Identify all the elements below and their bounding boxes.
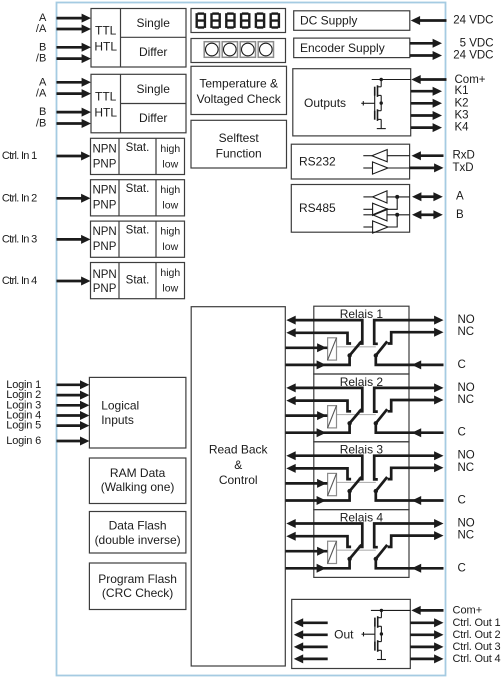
svg-text:NPN: NPN bbox=[92, 143, 116, 155]
label NO (relay 2) bbox=[458, 382, 475, 394]
svg-text:Encoder Supply: Encoder Supply bbox=[300, 41, 385, 55]
label C (relay 1) bbox=[458, 359, 466, 371]
wire relay 2 coil drive arrow from read back bbox=[286, 411, 328, 420]
svg-text:Ctrl. Out 2: Ctrl. Out 2 bbox=[453, 629, 501, 641]
wire relay 1 mechanical link (coil to contacts) bbox=[337, 346, 376, 348]
svg-text:Single: Single bbox=[137, 82, 171, 96]
block program flash test bbox=[89, 563, 185, 610]
label K4 bbox=[455, 122, 470, 134]
svg-text:(double inverse): (double inverse) bbox=[95, 533, 181, 547]
label K2 bbox=[455, 97, 469, 109]
label /A (encoder 2) bbox=[36, 88, 47, 100]
label A (encoder 2) bbox=[39, 76, 47, 88]
svg-text:5 VDC: 5 VDC bbox=[460, 37, 494, 49]
svg-text:Ctrl. Out 1: Ctrl. Out 1 bbox=[453, 617, 501, 629]
svg-text:Voltaged Check: Voltaged Check bbox=[197, 92, 282, 106]
svg-text:C: C bbox=[458, 427, 466, 439]
svg-text:high: high bbox=[160, 267, 180, 279]
wire Ctrl. Out 3 output arrow bbox=[410, 642, 443, 651]
svg-text:PNP: PNP bbox=[93, 283, 117, 295]
svg-text:DC Supply: DC Supply bbox=[300, 14, 357, 28]
svg-text:Stat.: Stat. bbox=[126, 275, 150, 287]
wire RxD input arrow bbox=[412, 151, 444, 160]
svg-text:RxD: RxD bbox=[453, 150, 475, 162]
svg-text:Selftest: Selftest bbox=[219, 131, 260, 145]
label Login 2 bbox=[6, 389, 41, 401]
wire RS485 B bidirectional arrow bbox=[412, 210, 443, 219]
svg-text:Ctrl. Out 4: Ctrl. Out 4 bbox=[453, 653, 501, 665]
label NC (relay 2) bbox=[458, 394, 475, 406]
wire relay 4 left contact NC to read back bbox=[286, 532, 351, 547]
svg-text:NO: NO bbox=[458, 382, 475, 394]
svg-text:Ctrl. In 2: Ctrl. In 2 bbox=[2, 192, 37, 204]
block control input 3 NPN/PNP Stat high/low bbox=[91, 221, 185, 257]
label /B (encoder 2) bbox=[36, 118, 46, 130]
svg-text:C: C bbox=[458, 562, 466, 574]
wire encoder supply 24 VDC output arrow bbox=[410, 51, 442, 60]
svg-text:Temperature &: Temperature & bbox=[199, 76, 278, 90]
svg-text:PNP: PNP bbox=[93, 241, 117, 253]
block selftest function bbox=[191, 120, 287, 168]
wire TxD output arrow bbox=[410, 163, 444, 172]
label B (encoder 2) bbox=[39, 106, 46, 118]
wire Ctrl. In 2 arrow bbox=[57, 194, 91, 203]
svg-text:Single: Single bbox=[137, 16, 171, 30]
svg-text:Program Flash: Program Flash bbox=[98, 572, 177, 586]
label K3 bbox=[455, 110, 469, 122]
wire relay 4 left contact NO to read back bbox=[286, 519, 362, 547]
wire relay 1 coil drive arrow from read back bbox=[286, 343, 328, 352]
wire out block internal drive arrow 2 bbox=[294, 630, 328, 639]
wire relay 4 common C input bbox=[376, 560, 444, 573]
switch relay 1 left pole blade bbox=[347, 341, 361, 357]
wire B input arrow to encoder 1 bbox=[57, 43, 92, 52]
svg-text:PNP: PNP bbox=[93, 158, 117, 170]
block data flash test bbox=[89, 512, 185, 554]
wire Com+ input arrow to out block bbox=[411, 606, 443, 615]
svg-text:C: C bbox=[458, 359, 466, 371]
label Ctrl. Out 2 bbox=[453, 629, 501, 641]
label Ctrl. In 4 bbox=[2, 275, 37, 287]
svg-text:Ctrl. In 3: Ctrl. In 3 bbox=[2, 233, 37, 245]
wire relay 4 NO contact output bbox=[374, 519, 443, 547]
svg-text:RS232: RS232 bbox=[299, 155, 336, 169]
label /A (encoder 1) bbox=[36, 23, 47, 35]
label 5 VDC bbox=[460, 37, 494, 49]
block RAM data test bbox=[89, 458, 185, 504]
wire relay 2 NC contact output bbox=[388, 396, 444, 412]
svg-text:K1: K1 bbox=[455, 85, 469, 97]
wire relay 3 NC contact output bbox=[388, 463, 444, 479]
label A (RS485) bbox=[456, 191, 464, 203]
label Login 3 bbox=[6, 399, 41, 411]
wire /A input arrow to encoder 2 bbox=[57, 89, 92, 98]
svg-text:Com+: Com+ bbox=[453, 605, 483, 617]
svg-text:(CRC Check): (CRC Check) bbox=[102, 586, 173, 600]
svg-text:NPN: NPN bbox=[92, 185, 116, 197]
svg-text:B: B bbox=[39, 106, 46, 118]
svg-text:Outputs: Outputs bbox=[304, 96, 346, 110]
svg-text:C: C bbox=[458, 495, 466, 507]
svg-text:Stat.: Stat. bbox=[126, 183, 150, 195]
svg-text:NO: NO bbox=[458, 518, 475, 530]
wire relay 1 left pole feed arrow from read back bbox=[286, 356, 350, 369]
wire out block internal drive arrow 4 bbox=[294, 654, 328, 663]
label NO (relay 3) bbox=[458, 450, 475, 462]
label C (relay 2) bbox=[458, 427, 466, 439]
block RS485 interface U4 bbox=[291, 185, 409, 234]
svg-text:&: & bbox=[234, 458, 242, 472]
label Ctrl. Out 1 bbox=[453, 617, 501, 629]
wire Ctrl. Out 2 output arrow bbox=[410, 630, 443, 639]
wire Login 2 arrow bbox=[57, 391, 90, 400]
label RxD bbox=[453, 150, 475, 162]
label Ctrl. In 3 bbox=[2, 233, 37, 245]
block U2 encoder input 2 TTL/HTL Single/Differ bbox=[91, 74, 186, 133]
svg-text:HTL: HTL bbox=[94, 40, 117, 54]
label NC (relay 4) bbox=[458, 530, 475, 542]
switch relay 2 left pole blade bbox=[347, 409, 361, 425]
wire Ctrl. In 1 arrow bbox=[57, 152, 91, 161]
svg-text:RS485: RS485 bbox=[299, 201, 336, 215]
coil relay 1 bbox=[328, 338, 337, 360]
wire Com+ input arrow to outputs bbox=[411, 75, 446, 84]
wire 24 VDC input arrow to DC supply bbox=[411, 16, 447, 25]
block control input 4 NPN/PNP Stat high/low bbox=[91, 263, 185, 299]
wire encoder supply 5 VDC output arrow bbox=[410, 39, 442, 48]
svg-text:/B: /B bbox=[36, 118, 46, 130]
wire relay 1 common C input bbox=[376, 356, 444, 369]
svg-text:NO: NO bbox=[458, 314, 475, 326]
svg-text:/A: /A bbox=[36, 23, 47, 35]
label Ctrl. Out 4 bbox=[453, 653, 501, 665]
block encoder supply bbox=[294, 38, 410, 58]
svg-text:B: B bbox=[39, 41, 46, 53]
block control input 2 NPN/PNP Stat high/low bbox=[91, 180, 185, 216]
switch relay 4 left pole blade bbox=[347, 545, 361, 561]
svg-text:high: high bbox=[160, 143, 180, 155]
wire out block internal drive arrow 3 bbox=[294, 642, 328, 651]
wire relay 1 NC contact output bbox=[388, 328, 444, 344]
svg-text:Out: Out bbox=[334, 627, 354, 641]
block temperature and voltage check bbox=[191, 66, 287, 114]
block RS232 interface U3 bbox=[291, 144, 409, 179]
label B (RS485) bbox=[456, 209, 464, 221]
wire Login 1 arrow bbox=[57, 380, 90, 389]
svg-text:Ctrl. In 4: Ctrl. In 4 bbox=[2, 275, 37, 287]
svg-text:NPN: NPN bbox=[92, 269, 116, 281]
svg-text:/A: /A bbox=[36, 88, 47, 100]
label /B (encoder 1) bbox=[36, 53, 46, 65]
switch relay 3 right pole blade bbox=[374, 477, 388, 493]
svg-text:Ctrl. In 1: Ctrl. In 1 bbox=[2, 150, 37, 162]
label K1 bbox=[455, 85, 469, 97]
wire relay 2 left contact NO to read back bbox=[286, 383, 362, 411]
wire Ctrl. In 4 arrow bbox=[57, 277, 91, 286]
svg-text:NC: NC bbox=[458, 394, 475, 406]
wire B input arrow to encoder 2 bbox=[57, 108, 92, 117]
wire relay 3 left contact NC to read back bbox=[286, 464, 351, 479]
label Login 6 bbox=[6, 435, 41, 447]
wire relay 4 coil drive arrow from read back bbox=[286, 547, 328, 556]
wire A input arrow to encoder 2 bbox=[57, 78, 92, 87]
block outputs driver Q1 with K1-K4 bbox=[293, 69, 411, 136]
wire out block internal drive arrow 1 bbox=[294, 618, 328, 627]
block logical inputs bbox=[89, 377, 185, 448]
svg-text:Login 5: Login 5 bbox=[6, 420, 41, 432]
svg-text:NPN: NPN bbox=[92, 226, 116, 238]
block read back and control bbox=[191, 307, 285, 666]
svg-text:NC: NC bbox=[458, 462, 475, 474]
svg-text:Function: Function bbox=[216, 147, 262, 161]
label Login 1 bbox=[6, 379, 41, 391]
wire Login 5 arrow bbox=[57, 421, 90, 430]
svg-text:NC: NC bbox=[458, 326, 475, 338]
svg-text:high: high bbox=[160, 226, 180, 238]
wire relay 3 mechanical link (coil to contacts) bbox=[337, 481, 376, 483]
wire Login 4 arrow bbox=[57, 411, 90, 420]
coil relay 3 bbox=[328, 473, 337, 495]
wire relay 1 left contact NC to read back bbox=[286, 328, 351, 343]
wire Login 3 arrow bbox=[57, 401, 90, 410]
svg-text:A: A bbox=[456, 191, 464, 203]
svg-text:K3: K3 bbox=[455, 110, 469, 122]
label NC (relay 3) bbox=[458, 462, 475, 474]
svg-text:A: A bbox=[39, 76, 47, 88]
svg-text:Differ: Differ bbox=[139, 45, 167, 59]
svg-text:Stat.: Stat. bbox=[126, 225, 150, 237]
wire relay 3 coil drive arrow from read back bbox=[286, 479, 328, 488]
wire /B input arrow to encoder 2 bbox=[57, 119, 92, 128]
block 7-segment display 888888 bbox=[191, 9, 286, 33]
svg-text:K4: K4 bbox=[455, 122, 470, 134]
wire Ctrl. Out 1 output arrow bbox=[410, 618, 443, 627]
wire relay 3 common C input bbox=[376, 492, 444, 505]
svg-text:Inputs: Inputs bbox=[101, 413, 134, 427]
svg-text:TTL: TTL bbox=[95, 24, 117, 38]
svg-text:low: low bbox=[162, 241, 178, 253]
wire relay 2 mechanical link (coil to contacts) bbox=[337, 414, 376, 416]
wire /A input arrow to encoder 1 bbox=[57, 25, 92, 34]
svg-text:low: low bbox=[162, 283, 178, 295]
wire relay 2 common C input bbox=[376, 424, 444, 437]
wire A input arrow to encoder 1 bbox=[57, 14, 92, 23]
svg-text:TxD: TxD bbox=[453, 162, 474, 174]
block control input 1 NPN/PNP Stat high/low bbox=[91, 138, 185, 174]
svg-text:low: low bbox=[162, 200, 178, 212]
svg-text:Ctrl. Out 3: Ctrl. Out 3 bbox=[453, 641, 501, 653]
label Com+ (out block) bbox=[453, 605, 483, 617]
svg-text:Login 6: Login 6 bbox=[6, 435, 41, 447]
wire K2 output arrow bbox=[411, 99, 442, 108]
wire relay 1 left contact NO to read back bbox=[286, 316, 362, 344]
svg-text:(Walking one): (Walking one) bbox=[101, 480, 175, 494]
block front buttons S1-S4 bbox=[191, 39, 286, 63]
svg-text:Data Flash: Data Flash bbox=[109, 519, 167, 533]
label NO (relay 1) bbox=[458, 314, 475, 326]
svg-text:HTL: HTL bbox=[94, 106, 117, 120]
switch relay 4 right pole blade bbox=[374, 545, 388, 561]
label Ctrl. Out 3 bbox=[453, 641, 501, 653]
svg-text:24 VDC: 24 VDC bbox=[453, 50, 493, 62]
svg-text:high: high bbox=[160, 184, 180, 196]
svg-text:low: low bbox=[162, 158, 178, 170]
wire relay 2 left pole feed arrow from read back bbox=[286, 424, 350, 437]
label 24 VDC (encoder supply) bbox=[453, 50, 493, 62]
wire relay 4 left pole feed arrow from read back bbox=[286, 560, 350, 573]
label C (relay 3) bbox=[458, 495, 466, 507]
label Com+ (outputs) bbox=[455, 74, 486, 86]
switch relay 3 left pole blade bbox=[347, 477, 361, 493]
block relay K3 outline bbox=[314, 442, 409, 510]
wire Ctrl. In 3 arrow bbox=[57, 235, 91, 244]
coil relay 4 bbox=[328, 541, 337, 563]
wire relay 4 mechanical link (coil to contacts) bbox=[337, 549, 376, 551]
svg-text:24 VDC: 24 VDC bbox=[453, 15, 493, 27]
wire relay 4 NC contact output bbox=[388, 531, 444, 547]
svg-text:Stat.: Stat. bbox=[126, 142, 150, 154]
label 24 VDC (DC supply) bbox=[453, 15, 493, 27]
wire relay 3 left pole feed arrow from read back bbox=[286, 492, 350, 505]
svg-text:Com+: Com+ bbox=[455, 74, 486, 86]
label TxD bbox=[453, 162, 474, 174]
svg-text:Read Back: Read Back bbox=[209, 442, 269, 456]
wire relay 3 left contact NO to read back bbox=[286, 451, 362, 479]
wire Ctrl. Out 4 output arrow bbox=[410, 654, 443, 663]
block relay K2 outline bbox=[314, 374, 409, 442]
svg-text:TTL: TTL bbox=[95, 90, 117, 104]
svg-text:NO: NO bbox=[458, 450, 475, 462]
wire K1 output arrow bbox=[411, 87, 442, 96]
wire K4 output arrow bbox=[411, 123, 442, 132]
wire relay 2 NO contact output bbox=[374, 383, 443, 411]
block DC supply bbox=[294, 11, 410, 31]
block U1 encoder input 1 TTL/HTL Single/Differ bbox=[91, 9, 186, 68]
svg-text:Logical: Logical bbox=[101, 399, 139, 413]
label Login 4 bbox=[6, 410, 41, 422]
block relay K1 outline bbox=[314, 306, 409, 374]
svg-text:B: B bbox=[456, 209, 464, 221]
svg-text:Control: Control bbox=[219, 473, 258, 487]
wire relay 3 NO contact output bbox=[374, 451, 443, 479]
wire K3 output arrow bbox=[411, 111, 442, 120]
svg-text:NC: NC bbox=[458, 530, 475, 542]
label Login 5 bbox=[6, 420, 41, 432]
wire relay 1 NO contact output bbox=[374, 316, 443, 344]
wire /B input arrow to encoder 1 bbox=[57, 54, 92, 63]
wire Login 6 arrow bbox=[57, 437, 90, 446]
svg-text:RAM Data: RAM Data bbox=[110, 466, 166, 480]
svg-text:PNP: PNP bbox=[93, 200, 117, 212]
wire RS485 A bidirectional arrow bbox=[412, 192, 443, 201]
svg-text:/B: /B bbox=[36, 53, 46, 65]
label NO (relay 4) bbox=[458, 518, 475, 530]
label NC (relay 1) bbox=[458, 326, 475, 338]
label B (encoder 1) bbox=[39, 41, 46, 53]
switch relay 2 right pole blade bbox=[374, 409, 388, 425]
svg-text:K2: K2 bbox=[455, 97, 469, 109]
label C (relay 4) bbox=[458, 562, 466, 574]
block relay K4 outline bbox=[314, 510, 409, 578]
switch relay 1 right pole blade bbox=[374, 341, 388, 357]
block control outputs driver Q2 bbox=[292, 599, 411, 668]
label Ctrl. In 1 bbox=[2, 150, 37, 162]
wire relay 2 left contact NC to read back bbox=[286, 396, 351, 411]
svg-text:Differ: Differ bbox=[139, 111, 167, 125]
coil relay 2 bbox=[328, 406, 337, 428]
label A (encoder 1) bbox=[39, 12, 47, 24]
label Ctrl. In 2 bbox=[2, 192, 37, 204]
